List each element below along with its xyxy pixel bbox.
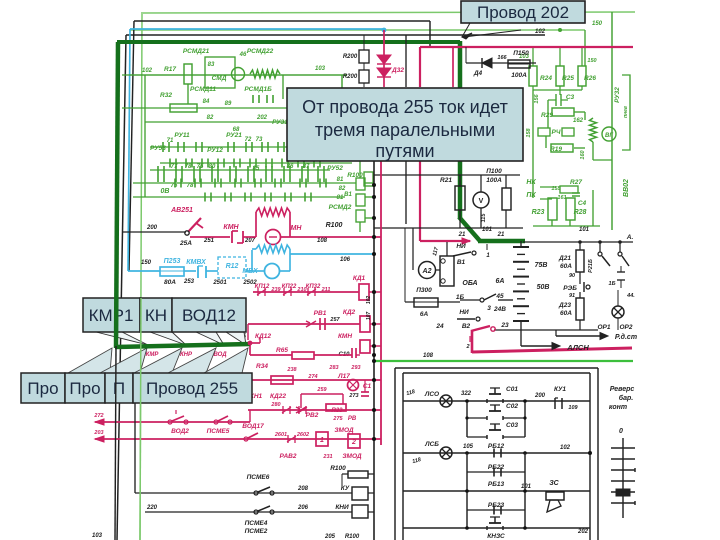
voltmeter V xyxy=(473,192,489,208)
svg-text:80А: 80А xyxy=(164,279,176,286)
svg-text:R65: R65 xyxy=(276,347,288,354)
contact mid 620 xyxy=(617,271,625,273)
svg-text:239: 239 xyxy=(270,287,281,293)
svg-text:РСМД22: РСМД22 xyxy=(247,48,274,55)
relay box A2 xyxy=(440,256,454,286)
svg-text:ВГ: ВГ xyxy=(605,133,613,139)
wire lamp stub xyxy=(617,290,619,306)
box ZMOD 1 xyxy=(316,432,328,446)
callout box Provod 255 xyxy=(133,373,252,403)
svg-text:202: 202 xyxy=(577,529,589,535)
wire black horizontal top full xyxy=(126,34,545,36)
svg-text:238: 238 xyxy=(286,367,297,373)
wire black row 175 xyxy=(374,174,520,176)
svg-text:202: 202 xyxy=(256,115,268,121)
svg-text:КД12: КД12 xyxy=(255,333,271,340)
resistor MN zigzag xyxy=(256,208,290,216)
svg-text:Р21Б: Р21Б xyxy=(588,259,594,273)
wire row 300 xyxy=(460,299,480,301)
svg-text:РСМД11: РСМД11 xyxy=(190,86,216,93)
svg-text:РУ12: РУ12 xyxy=(207,147,223,154)
wire green bright 108 xyxy=(374,360,633,362)
svg-text:В2: В2 xyxy=(462,323,471,330)
wire green verticals right block xyxy=(532,90,534,198)
resistor R25 xyxy=(556,66,564,86)
svg-text:100А: 100А xyxy=(486,177,502,184)
wire black row 63 xyxy=(466,62,536,64)
svg-text:бар.: бар. xyxy=(619,394,634,402)
callout box KMR1 xyxy=(83,298,140,332)
wire cyan to r12 xyxy=(206,270,218,272)
svg-text:R200: R200 xyxy=(343,54,358,60)
callout leader triangles KMR1 xyxy=(96,332,148,345)
wire nk pk stubs xyxy=(540,186,556,188)
svg-text:1: 1 xyxy=(320,437,324,444)
wire magenta drop xyxy=(471,330,474,353)
node green 560 xyxy=(558,28,562,32)
svg-text:ЗС: ЗС xyxy=(549,480,559,487)
svg-text:конт: конт xyxy=(609,404,627,411)
wire pale-green horizontal 102 xyxy=(130,29,585,31)
svg-text:П150: П150 xyxy=(513,50,529,57)
svg-text:89: 89 xyxy=(225,101,232,107)
svg-text:РВ1: РВ1 xyxy=(314,310,327,317)
svg-text:2: 2 xyxy=(465,344,469,350)
svg-text:В1: В1 xyxy=(344,192,352,198)
wire green r bottoms xyxy=(533,89,582,91)
wire a2 links xyxy=(412,228,414,270)
wire r34 row xyxy=(252,379,381,381)
svg-text:ОР1: ОР1 xyxy=(597,324,610,331)
svg-text:200: 200 xyxy=(146,225,158,231)
svg-text:РУ31: РУ31 xyxy=(272,119,288,126)
wire jumper 259 xyxy=(300,394,302,408)
svg-text:259: 259 xyxy=(316,387,327,393)
svg-text:ПК: ПК xyxy=(526,192,536,199)
svg-text:РУ53: РУ53 xyxy=(150,145,166,152)
svg-text:2: 2 xyxy=(351,439,356,446)
contacts row 197 xyxy=(204,193,206,202)
button C02 xyxy=(467,417,487,419)
svg-text:207: 207 xyxy=(244,238,256,244)
svg-text:0В: 0В xyxy=(161,188,170,195)
svg-text:ЛСО: ЛСО xyxy=(424,391,439,398)
button KNZS xyxy=(489,522,501,524)
svg-text:КД22: КД22 xyxy=(270,393,286,400)
svg-text:Про: Про xyxy=(27,379,58,398)
svg-text:КМН: КМН xyxy=(338,333,352,340)
svg-text:КД2: КД2 xyxy=(343,309,356,316)
wire psme6 row xyxy=(135,492,352,494)
svg-text:46: 46 xyxy=(239,52,247,58)
contact x 620 xyxy=(619,242,621,252)
wire black row 330 xyxy=(494,329,598,331)
svg-text:КУ: КУ xyxy=(341,485,350,492)
svg-text:КНР: КНР xyxy=(180,352,193,358)
wire kd2 row xyxy=(248,323,360,325)
lamp LSB xyxy=(440,447,452,459)
wire green row 183 xyxy=(133,182,356,184)
wire thick dark-green bottom horizontal 255 xyxy=(115,344,250,347)
svg-text:2501: 2501 xyxy=(212,280,227,286)
svg-text:R27: R27 xyxy=(570,179,582,186)
svg-text:23: 23 xyxy=(500,322,509,329)
svg-text:205: 205 xyxy=(324,534,336,540)
motor MVX xyxy=(265,264,280,279)
arrow 272 xyxy=(95,419,104,425)
svg-text:77: 77 xyxy=(171,164,178,170)
svg-text:ПСМЕ4: ПСМЕ4 xyxy=(245,520,268,527)
svg-text:РСМД1Б: РСМД1Б xyxy=(244,86,272,93)
svg-text:1Б: 1Б xyxy=(609,281,616,287)
wire lso main row xyxy=(403,400,590,402)
svg-text:ПСМЕ6: ПСМЕ6 xyxy=(247,474,270,481)
wire p300 row xyxy=(405,301,414,303)
wire kn1 row xyxy=(248,409,381,411)
svg-text:6А: 6А xyxy=(420,311,429,318)
resistor R12 dashed box xyxy=(218,257,246,278)
wire thick dark-green to battery xyxy=(478,239,525,244)
svg-text:Д23: Д23 xyxy=(558,302,571,309)
svg-text:Р.д.ст: Р.д.ст xyxy=(615,333,637,341)
svg-text:РБ23: РБ23 xyxy=(488,502,505,509)
callout box Provod 202 xyxy=(461,1,585,23)
svg-text:АВ251: АВ251 xyxy=(170,207,193,214)
svg-text:156: 156 xyxy=(534,93,540,103)
svg-text:ВОД2: ВОД2 xyxy=(171,428,189,435)
label 1 tick xyxy=(486,244,488,250)
svg-text:R28: R28 xyxy=(574,209,587,216)
wire green drop 585 xyxy=(584,30,586,66)
wire cyan mvx bottom xyxy=(252,270,264,272)
callout box VOD12 xyxy=(172,298,246,332)
wire black vertical overlay xyxy=(115,346,116,540)
svg-text:150: 150 xyxy=(141,260,152,266)
wire green feed r24 row xyxy=(533,46,583,48)
wire black 200 xyxy=(122,231,186,233)
svg-text:КП22: КП22 xyxy=(282,284,297,290)
svg-text:РСМД21: РСМД21 xyxy=(183,48,210,55)
scale slider xyxy=(616,489,630,496)
svg-text:РЧ: РЧ xyxy=(552,129,561,136)
callout leader triangles provod255 xyxy=(68,348,112,373)
svg-text:Д21: Д21 xyxy=(558,255,571,262)
wire black row 224 (101) xyxy=(374,227,523,229)
svg-text:257: 257 xyxy=(329,317,340,323)
wire green bottom row 101 xyxy=(533,225,600,227)
wire rb13 row xyxy=(403,490,590,492)
svg-text:109: 109 xyxy=(568,405,578,411)
diode D32 lower xyxy=(377,68,391,77)
wire knzs row xyxy=(403,527,590,529)
svg-text:91: 91 xyxy=(569,293,575,299)
svg-text:ОБА: ОБА xyxy=(462,280,477,287)
svg-text:РУ21: РУ21 xyxy=(226,132,242,139)
wire vod2 row 422 xyxy=(95,421,250,423)
svg-text:ЗМОД: ЗМОД xyxy=(342,453,362,460)
wire magenta vertical 453 xyxy=(452,47,454,87)
switch 600 xyxy=(599,242,601,252)
box ZMOD 2 xyxy=(348,434,360,448)
svg-text:206: 206 xyxy=(297,505,309,511)
svg-text:РБ12: РБ12 xyxy=(488,443,505,450)
svg-text:Про: Про xyxy=(69,379,100,398)
wire thick magenta bottom xyxy=(472,348,632,352)
svg-text:П253: П253 xyxy=(164,258,181,265)
wire magenta vertical 384 diode branch xyxy=(383,30,385,87)
svg-text:ВОД17: ВОД17 xyxy=(242,423,264,430)
wire d23 down xyxy=(579,292,581,298)
svg-text:231: 231 xyxy=(322,454,332,460)
svg-text:тремя паралельными: тремя паралельными xyxy=(315,120,495,140)
svg-text:25А: 25А xyxy=(179,240,192,247)
svg-text:РУ52: РУ52 xyxy=(327,165,343,172)
resistor R24 xyxy=(529,66,537,86)
wire black drop at x=430 xyxy=(429,21,431,47)
contact KP22 xyxy=(283,288,285,296)
svg-text:R200: R200 xyxy=(343,74,358,80)
node dots 242 xyxy=(578,240,582,244)
svg-text:105: 105 xyxy=(463,444,474,450)
wire thick dark-green left vertical (provod 255) xyxy=(116,42,118,348)
svg-text:108: 108 xyxy=(423,353,434,359)
node dots ladder C xyxy=(465,399,469,403)
wire psme4 row xyxy=(145,511,352,513)
svg-text:220: 220 xyxy=(146,505,158,511)
wire box inner left xyxy=(402,373,404,540)
button C03 xyxy=(467,436,487,438)
svg-text:V: V xyxy=(479,198,484,205)
svg-text:Провод 202: Провод 202 xyxy=(477,3,569,22)
wire black frame left vertical xyxy=(117,35,126,540)
svg-text:С01: С01 xyxy=(506,386,518,393)
bus magenta vertical 381 xyxy=(380,161,382,445)
wire green row 0V xyxy=(133,196,345,198)
svg-text:103: 103 xyxy=(315,66,326,72)
svg-text:81: 81 xyxy=(337,195,344,201)
wire cyan to bus 106 xyxy=(290,253,374,255)
svg-text:R100: R100 xyxy=(330,465,346,472)
resistor R26 xyxy=(578,66,586,86)
node dots knzs xyxy=(465,526,469,530)
switch psme6 xyxy=(254,491,258,495)
node dots bus xyxy=(372,183,376,187)
wire alsn arrow xyxy=(521,345,556,347)
lamp OR xyxy=(612,306,624,318)
svg-text:ВОД12: ВОД12 xyxy=(182,306,236,325)
scale ladder xyxy=(622,438,624,518)
svg-text:Д4: Д4 xyxy=(473,70,483,77)
svg-text:С1: С1 xyxy=(363,383,372,390)
motor MN xyxy=(266,230,281,245)
contact rb23 xyxy=(493,506,495,515)
svg-text:60А: 60А xyxy=(560,263,572,270)
svg-text:путями: путями xyxy=(375,141,434,161)
bracket dashed right xyxy=(622,75,630,150)
wire kd2 left drop xyxy=(247,324,249,340)
wire magenta mn row xyxy=(190,236,230,238)
svg-text:115: 115 xyxy=(481,213,487,223)
relay box SMD xyxy=(205,57,235,88)
svg-text:R25: R25 xyxy=(562,75,574,82)
wire alsn drop xyxy=(520,330,522,346)
svg-text:R23: R23 xyxy=(532,209,545,216)
wire thick dark-green right vertical xyxy=(458,41,463,219)
svg-text:R12: R12 xyxy=(226,263,239,270)
wire cyan 271 xyxy=(128,270,160,272)
svg-text:101: 101 xyxy=(579,227,590,233)
contacts row 160 xyxy=(169,159,171,168)
svg-text:3: 3 xyxy=(487,305,491,312)
svg-text:166: 166 xyxy=(497,55,507,61)
wire battery top xyxy=(520,241,522,247)
wire green vertical 342 b xyxy=(341,131,343,147)
contact NI B1 xyxy=(453,252,471,256)
svg-text:МН: МН xyxy=(291,225,303,232)
svg-text:Провод 255: Провод 255 xyxy=(146,379,238,398)
fuse D21 60A xyxy=(576,250,584,272)
wire cyan frame left vertical xyxy=(128,29,130,271)
svg-text:50В: 50В xyxy=(537,284,550,291)
callout box P 3 xyxy=(105,373,133,403)
wire black row 242 right xyxy=(523,241,633,243)
wire green row 170 xyxy=(150,169,330,171)
contacts row 183 xyxy=(174,179,176,188)
svg-text:162: 162 xyxy=(573,118,584,124)
svg-text:П: П xyxy=(113,379,125,398)
contacts row 170 tall xyxy=(157,166,159,182)
callout box Pro 2 xyxy=(65,373,105,403)
label 2 tick xyxy=(469,336,471,342)
svg-text:ОР2: ОР2 xyxy=(619,324,632,331)
contact vod17 xyxy=(244,437,248,441)
svg-text:102: 102 xyxy=(142,68,153,74)
svg-text:С02: С02 xyxy=(506,403,518,410)
ladder rails C xyxy=(466,401,468,437)
wire green row R32 xyxy=(122,107,310,109)
wire black vertical 406 xyxy=(405,35,407,87)
svg-text:21: 21 xyxy=(458,232,466,238)
wire d4 stub xyxy=(465,47,467,63)
svg-text:283: 283 xyxy=(328,365,338,371)
svg-text:R100: R100 xyxy=(326,222,343,229)
svg-text:102: 102 xyxy=(535,29,546,35)
contact KP32 xyxy=(307,288,309,296)
svg-text:103: 103 xyxy=(92,533,103,539)
svg-text:С4: С4 xyxy=(578,200,587,207)
svg-text:161: 161 xyxy=(557,195,566,201)
svg-text:24: 24 xyxy=(435,323,444,330)
contact rb12 xyxy=(493,449,495,458)
svg-text:45: 45 xyxy=(495,293,504,300)
contact rb22 xyxy=(493,468,495,477)
wire pale-green frame top xyxy=(141,12,635,13)
svg-text:С03: С03 xyxy=(506,422,518,429)
svg-text:44.: 44. xyxy=(626,293,635,299)
svg-text:R34: R34 xyxy=(256,363,268,370)
svg-text:75В: 75В xyxy=(535,262,548,269)
wire vod2 connect xyxy=(249,410,251,422)
svg-text:102: 102 xyxy=(366,296,372,305)
svg-text:150: 150 xyxy=(592,21,603,27)
svg-text:R100: R100 xyxy=(345,534,360,540)
lamp LSO xyxy=(440,395,452,407)
wire green row 163 xyxy=(160,162,352,164)
wire box outer top xyxy=(395,367,598,369)
svg-text:274: 274 xyxy=(307,374,317,380)
resistor RSMD22 zigzag xyxy=(250,70,280,78)
svg-text:60А: 60А xyxy=(560,310,572,317)
node green start xyxy=(372,359,376,363)
svg-text:160: 160 xyxy=(580,150,586,159)
svg-text:КМР1: КМР1 xyxy=(89,306,134,325)
contact RSMD1B pair xyxy=(252,95,254,103)
svg-text:РВ: РВ xyxy=(348,416,357,422)
svg-text:РУ11: РУ11 xyxy=(174,132,190,139)
contact KU1 xyxy=(554,398,556,409)
svg-text:А.: А. xyxy=(626,234,634,241)
wire box outer right xyxy=(597,368,599,540)
wire r100 row xyxy=(368,473,374,475)
svg-text:РУ32: РУ32 xyxy=(614,87,621,103)
svg-text:158: 158 xyxy=(526,127,532,137)
svg-text:101: 101 xyxy=(482,227,493,233)
svg-text:КМВХ: КМВХ xyxy=(186,259,207,266)
svg-text:АЛСН: АЛСН xyxy=(566,343,589,352)
svg-text:273: 273 xyxy=(348,393,358,399)
svg-text:81: 81 xyxy=(337,177,344,183)
wire thick dark-green diagonal xyxy=(459,217,480,241)
svg-text:24В: 24В xyxy=(493,306,506,313)
svg-text:280: 280 xyxy=(270,402,280,408)
svg-text:101: 101 xyxy=(521,484,532,490)
svg-text:П300: П300 xyxy=(416,287,432,294)
wire green row 102 xyxy=(130,74,347,76)
wire magenta vertical 420 lower xyxy=(419,161,421,241)
svg-text:РСМД2: РСМД2 xyxy=(329,204,352,211)
wire rb22 row xyxy=(467,471,525,473)
svg-text:КНИ: КНИ xyxy=(335,504,349,511)
wire magenta horizontal rail xyxy=(420,46,633,48)
svg-text:83: 83 xyxy=(208,62,215,68)
wire black r200 link xyxy=(363,35,365,50)
callout box KN xyxy=(140,298,172,332)
button C01 xyxy=(486,399,488,403)
wire green verticals top block xyxy=(187,84,189,104)
svg-text:А2: А2 xyxy=(422,268,432,275)
coil RSMD2 column xyxy=(356,178,365,190)
node dots rb13 xyxy=(465,489,469,493)
resistor zig vertical xyxy=(590,118,597,142)
wire thick dark-green top (provod 202) xyxy=(117,40,460,44)
wire green verticals ru block xyxy=(144,108,146,197)
svg-text:Реверс: Реверс xyxy=(610,386,635,393)
contacts row 147 xyxy=(162,142,164,152)
wire magenta vertical 420 xyxy=(419,47,421,87)
wire mn loop xyxy=(243,236,256,238)
node cyan junction xyxy=(382,28,387,33)
svg-text:НК: НК xyxy=(526,179,536,186)
svg-text:КНЗС: КНЗС xyxy=(487,533,505,540)
svg-text:275: 275 xyxy=(332,416,343,422)
svg-text:90: 90 xyxy=(569,273,575,279)
switch psme4 xyxy=(254,510,258,514)
svg-text:пнев: пнев xyxy=(623,106,629,118)
svg-text:ВОД: ВОД xyxy=(213,352,227,358)
svg-text:106: 106 xyxy=(340,257,351,263)
svg-text:Л17: Л17 xyxy=(337,373,350,380)
svg-text:РАВ2: РАВ2 xyxy=(280,453,297,460)
